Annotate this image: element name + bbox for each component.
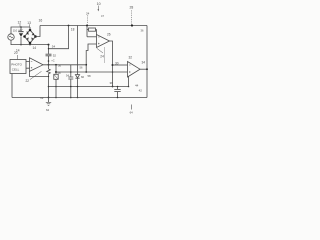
wire U3 feedback (30, 71, 49, 76)
svg-text:22: 22 (26, 79, 30, 83)
wire bottom AC line (11, 40, 49, 44)
svg-text:13: 13 (27, 21, 31, 25)
svg-text:30: 30 (115, 61, 119, 65)
wire U2 feedback down (128, 76, 130, 86)
svg-text:16: 16 (39, 19, 43, 23)
svg-text:+C: +C (51, 58, 55, 62)
AC source V1 (8, 34, 14, 40)
bridge rectifier D1-D4 diamond (25, 30, 36, 43)
svg-text:PHOTO: PHOTO (11, 63, 22, 67)
svg-text:18: 18 (71, 28, 75, 32)
svg-text:60: 60 (81, 75, 85, 79)
wire top AC line (11, 27, 30, 34)
svg-text:24: 24 (86, 11, 90, 15)
svg-text:56: 56 (80, 66, 83, 70)
svg-text:42: 42 (139, 88, 143, 92)
svg-text:47: 47 (101, 14, 104, 18)
wire U1 -input (87, 36, 97, 38)
svg-text:56: 56 (58, 63, 62, 67)
svg-text:44: 44 (135, 83, 139, 87)
svg-text:38: 38 (110, 81, 114, 85)
resistor R2 on stub (55, 65, 57, 98)
node top rail (40, 25, 147, 27)
wire U1 +input feedback (86, 44, 96, 72)
svg-text:32: 32 (129, 56, 133, 60)
svg-text:14: 14 (33, 46, 37, 50)
svg-text:24: 24 (100, 54, 104, 58)
svg-text:28: 28 (130, 6, 134, 10)
capacitor C4 (117, 87, 119, 90)
op-amp U2 (128, 62, 141, 78)
op-amp U3 (30, 58, 44, 72)
svg-text:12: 12 (18, 21, 22, 25)
ground (48, 98, 50, 103)
wire B mid bus (56, 71, 128, 73)
wire A output bus (43, 64, 86, 66)
svg-text:54: 54 (52, 44, 56, 48)
wire box ground (11, 74, 13, 98)
wire U2 top input (113, 64, 128, 66)
numeral 64b lead (131, 105, 133, 110)
svg-text:10: 10 (97, 2, 101, 6)
resistor R1 (86, 26, 88, 37)
wire box outputs (26, 62, 30, 69)
wire bridge top lead (29, 27, 31, 30)
wire V1 filter (48, 45, 50, 54)
capacitor C1 (20, 27, 22, 31)
svg-text:64: 64 (130, 111, 134, 115)
wire U2 output (140, 68, 147, 70)
wire C lower bus (49, 86, 129, 88)
svg-text:26: 26 (107, 33, 111, 37)
svg-text:36: 36 (141, 29, 144, 33)
wire V2 from rail down and left to V1 (49, 26, 69, 49)
wire U1 output (110, 41, 113, 87)
wire bottom rail (12, 97, 147, 99)
photocell box (10, 60, 26, 74)
wire bridge bottom lead (29, 43, 31, 45)
wire bridge right to top rail (36, 26, 41, 37)
svg-text:64: 64 (46, 108, 50, 112)
resistor R3 zigzag (47, 69, 51, 75)
op-amp U1 (97, 35, 110, 48)
wire right rail (146, 26, 148, 98)
svg-text:58: 58 (88, 74, 92, 78)
svg-text:34: 34 (142, 61, 146, 65)
svg-text:62: 62 (40, 96, 44, 100)
capacitor C3 (70, 65, 72, 77)
svg-text:20: 20 (14, 51, 18, 55)
svg-text:58: 58 (58, 71, 62, 75)
diode D5 drop line (77, 26, 79, 75)
svg-text:52: 52 (53, 54, 57, 58)
svg-text:CELL: CELL (12, 68, 20, 72)
